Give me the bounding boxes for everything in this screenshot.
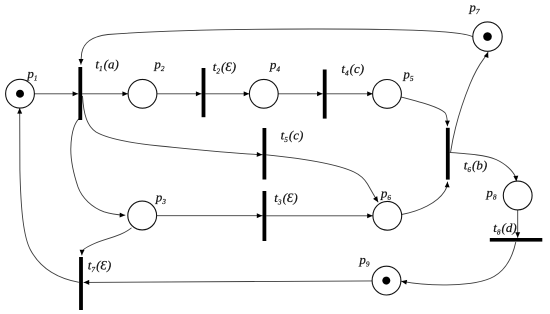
svg-text:t5(c): t5(c) — [281, 128, 304, 145]
place p9 — [372, 266, 401, 295]
wire t4 to p5 — [327, 93, 373, 95]
token in p7 — [483, 32, 492, 41]
wire t1 to t5 — [83, 96, 263, 155]
transition t5 — [263, 128, 267, 180]
svg-text:t6(b): t6(b) — [464, 158, 487, 175]
transition t3 — [263, 191, 267, 241]
wire p5 to t6 — [401, 97, 448, 126]
wire t7 to p1 — [20, 108, 79, 282]
wire t1 to p2 — [82, 93, 128, 95]
svg-text:t2(Ɛ): t2(Ɛ) — [213, 59, 236, 76]
svg-text:t8(d): t8(d) — [493, 220, 516, 237]
svg-text:t4(c): t4(c) — [341, 61, 364, 78]
wire p1 to t1 — [34, 93, 78, 95]
wire p4 to t4 — [278, 93, 323, 95]
wire p3 to t3 — [157, 215, 263, 217]
svg-text:t1(a): t1(a) — [95, 57, 118, 74]
wire p6 to t6 — [402, 182, 448, 215]
place p6 — [373, 201, 402, 230]
wire p9 to t7 — [84, 281, 373, 283]
wire t6 to p8 — [450, 153, 517, 182]
wire t2 to p4 — [205, 93, 249, 95]
place p4 — [249, 79, 278, 108]
place p7 — [473, 22, 502, 51]
place p2 — [128, 79, 157, 108]
transition t1 — [78, 67, 82, 120]
wire t6 to p7 — [451, 52, 489, 152]
wire p3 to t7 — [82, 228, 132, 256]
place p5 — [373, 80, 402, 109]
transition t2 — [202, 68, 206, 117]
svg-text:t7(Ɛ): t7(Ɛ) — [88, 258, 111, 275]
place p1 — [6, 79, 35, 108]
place p3 — [128, 201, 157, 230]
wire t5 to p6 — [266, 155, 378, 202]
wire p8 to t8 — [517, 210, 519, 238]
place p8 — [503, 181, 532, 210]
transition t7 — [79, 257, 83, 310]
wire t8 to p9 — [401, 242, 516, 285]
wire t3 to p6 — [266, 215, 373, 217]
token in p9 — [382, 277, 390, 285]
wire t1 to p3 — [71, 119, 126, 215]
token in p1 — [16, 90, 24, 98]
transition t4 — [323, 70, 327, 119]
wire p7 to t1 — [81, 29, 473, 65]
svg-text:t3(Ɛ): t3(Ɛ) — [274, 190, 297, 207]
transition t6 — [446, 128, 450, 180]
transition t8 — [490, 238, 543, 242]
wire p2 to t2 — [157, 93, 202, 95]
